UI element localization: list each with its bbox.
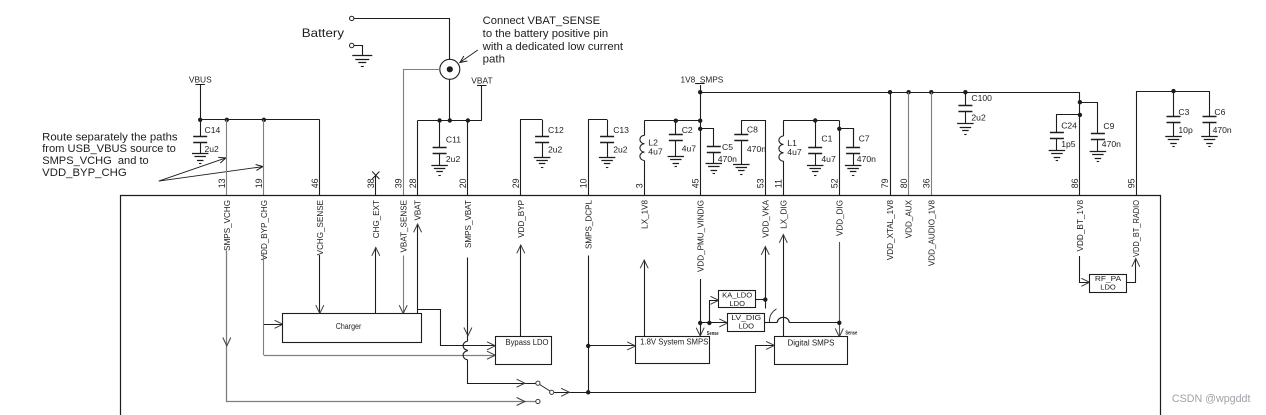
pin 86 number: [1070, 178, 1080, 188]
pin 3 name LX_1V8: [640, 200, 649, 229]
battery positive terminal: [350, 16, 354, 20]
svg-text:SMPS_VCHG and to: SMPS_VCHG and to: [42, 155, 149, 167]
net label VBAT: [471, 75, 492, 85]
svg-text:Sense: Sense: [707, 331, 719, 337]
arrow into Digital SMPS: [766, 341, 774, 349]
svg-text:86: 86: [1070, 178, 1080, 188]
svg-text:C9: C9: [1103, 121, 1114, 131]
pin 20 number: [458, 178, 468, 188]
svg-text:470n: 470n: [1102, 139, 1121, 149]
wire L2 C2 sub-bus: [644, 120, 700, 122]
wire battery+ to junction circle: [354, 19, 450, 60]
pin 52 name VDD_DIG: [835, 200, 844, 236]
wire 1V8 bus drop to L2/C2 sub-bus: [700, 92, 702, 121]
wire SMPS_DCPL to 1.8V SMPS: [588, 342, 635, 350]
svg-text:2u2: 2u2: [446, 154, 461, 164]
wire bus to pin 28: [417, 121, 419, 196]
pin 36 name VDD_AUDIO_1V8: [927, 200, 936, 267]
arrow into LV_DIG: [719, 319, 727, 327]
svg-text:10: 10: [578, 178, 588, 188]
wire tap to C24: [1057, 113, 1083, 132]
capacitor C14: [192, 120, 221, 164]
node SMPS_DCPL branch: [586, 344, 590, 348]
svg-text:C12: C12: [548, 125, 564, 135]
wire tap to C9: [1078, 100, 1098, 134]
node VBUS-C14: [198, 118, 202, 122]
pin 80 number: [899, 178, 909, 188]
svg-text:SMPS_VCHG: SMPS_VCHG: [223, 200, 232, 251]
pin 53 number: [756, 178, 766, 188]
svg-text:VDD_BT_1V8: VDD_BT_1V8: [1076, 200, 1085, 252]
wire KA_LDO output: [756, 297, 768, 301]
pin 95 number: [1126, 178, 1136, 188]
svg-text:LX_1V8: LX_1V8: [640, 200, 649, 229]
wire switch to Digital SMPS: [554, 346, 773, 393]
wire bus to pin 80: [908, 92, 910, 195]
switch blade KA_LDO to VDD_DIG: [770, 309, 777, 323]
wire hop over VBAT branch: [463, 341, 467, 350]
leader arrow to VDD_BYP_CHG pin line: [159, 165, 263, 182]
svg-text:CHG_EXT: CHG_EXT: [372, 200, 381, 238]
svg-text:39: 39: [393, 178, 403, 188]
switch contact circle 1: [536, 381, 540, 385]
wire VDD_BYP_CHG to Bypass LDO: [264, 351, 495, 359]
wire bus to pin 79: [890, 92, 892, 195]
wire bus to pin 13: [226, 120, 228, 196]
annotation note: connect VBAT_SENSE: [482, 15, 623, 65]
svg-text:36: 36: [922, 178, 932, 188]
wire 1V8 bus to pin 86: [1079, 92, 1081, 195]
capacitor C6: [1201, 91, 1232, 146]
battery label: [302, 26, 345, 40]
node SMPS_DCPL joins switch wire: [586, 390, 590, 394]
svg-text:4u7: 4u7: [787, 147, 802, 157]
pin 3 number: [634, 183, 644, 188]
svg-text:470n: 470n: [718, 154, 737, 164]
svg-text:Connect VBAT_SENSE: Connect VBAT_SENSE: [483, 15, 600, 27]
svg-text:Digital SMPS: Digital SMPS: [787, 338, 834, 347]
pin 52 number: [830, 178, 840, 188]
pin 28 name VBAT: [414, 200, 423, 221]
svg-text:LDO: LDO: [1100, 282, 1116, 291]
wire VDD_BYP_CHG internal: [263, 253, 265, 356]
svg-text:C100: C100: [971, 93, 992, 103]
svg-text:VDD_BT_RADIO: VDD_BT_RADIO: [1132, 200, 1141, 257]
capacitor C100: [957, 92, 992, 134]
pin 10 name SMPS_DCPL: [584, 200, 593, 250]
wire pin 53 to C8: [741, 121, 765, 196]
svg-text:C6: C6: [1214, 107, 1225, 117]
node VBUS-pin13: [225, 118, 229, 122]
wire bus to pin 36: [931, 92, 933, 195]
node VDD_PMU branch: [698, 321, 702, 325]
wire bus to pin 20: [467, 121, 469, 196]
wire pin 29 to C12: [521, 120, 543, 196]
wire VBAT branch to Bypass LDO: [418, 310, 496, 350]
wire VDD_BYP_CHG to Charger: [264, 320, 283, 328]
pin 29 name VDD_BYP: [517, 200, 526, 238]
svg-text:Sense: Sense: [845, 331, 857, 337]
svg-text:from USB_VBUS source to: from USB_VBUS source to: [42, 143, 176, 155]
node subbus-C2: [674, 119, 678, 123]
wire bus to pin 19: [263, 120, 265, 196]
pin 28 number: [408, 178, 418, 188]
node busBT-C3: [1171, 89, 1175, 93]
pin 20 name SMPS_VBAT: [464, 200, 473, 248]
svg-text:SMPS_VBAT: SMPS_VBAT: [464, 200, 473, 248]
svg-text:45: 45: [690, 178, 700, 188]
svg-text:19: 19: [254, 178, 264, 188]
capacitor C8: [733, 120, 766, 174]
svg-text:CSDN @wpgddt: CSDN @wpgddt: [1172, 393, 1251, 405]
svg-text:470n: 470n: [1213, 125, 1232, 135]
pin 53 name VDD_VKA: [761, 199, 770, 237]
wire bus to pin 46: [319, 120, 321, 196]
pin 19 number: [254, 178, 264, 188]
pin 79 name VDD_XTAL_1V8: [886, 200, 895, 261]
wire pin 95 to C3 C6 bus: [1137, 92, 1210, 196]
wire SMPS_VBAT to switch: [468, 360, 536, 384]
net label VBUS: [189, 74, 212, 84]
capacitor C11: [431, 121, 461, 176]
svg-text:LDO: LDO: [739, 321, 755, 330]
wire VDD_BT_1V8 internal: [1080, 256, 1090, 286]
block Bypass LDO: [496, 337, 552, 365]
pin 11 name LX_DIG: [779, 200, 788, 229]
svg-text:VDD_DIG: VDD_DIG: [835, 200, 844, 236]
svg-text:Route separately the paths: Route separately the paths: [42, 131, 178, 143]
pin 86 name VDD_BT_1V8: [1076, 200, 1085, 252]
pin 38 no-connect stub: [375, 176, 377, 196]
pin 79 number: [880, 178, 890, 188]
node VBAT-C11: [437, 118, 441, 122]
block LV_DIG LDO: [728, 313, 765, 331]
svg-text:C5: C5: [722, 142, 733, 152]
svg-text:C14: C14: [205, 125, 221, 135]
wire battery- to ground: [354, 46, 363, 56]
wire hop over VDD_BYP_CHG line: [463, 351, 467, 360]
pin 38 name CHG_EXT: [372, 200, 381, 238]
wire SMPS_DCPL internal: [588, 256, 590, 393]
wire VBUS bus: [200, 119, 320, 121]
wire LX_DIG internal: [779, 235, 787, 337]
capacitor C9: [1090, 121, 1121, 162]
arrow mid wire: [561, 388, 569, 396]
svg-text:C8: C8: [747, 125, 758, 135]
wire LV_DIG output to VDD_DIG: [765, 317, 839, 322]
block RF_PA LDO: [1090, 274, 1127, 292]
node VBAT-pin20: [466, 118, 470, 122]
no-connect X on pin 38: [372, 172, 379, 180]
svg-text:2u2: 2u2: [205, 144, 220, 154]
arrow on SMPS_VCHG: [223, 338, 231, 346]
svg-text:with a dedicated low current: with a dedicated low current: [482, 41, 623, 53]
svg-text:VBAT_SENSE: VBAT_SENSE: [399, 199, 408, 252]
ground battery: [352, 56, 372, 67]
svg-text:VDD_BYP: VDD_BYP: [517, 200, 526, 238]
svg-text:4u7: 4u7: [648, 146, 663, 156]
capacitor C7: [845, 129, 876, 176]
pin 10 number: [578, 178, 588, 188]
leader arrow to SMPS_VCHG pin line: [159, 157, 226, 181]
node VDD_DIG junction: [837, 321, 841, 325]
svg-text:2u2: 2u2: [548, 145, 563, 155]
wire between hops: [467, 349, 469, 352]
wire VBAT bus: [418, 120, 482, 122]
pin 19 name VDD_BYP_CHG: [260, 200, 269, 260]
wire VDD_VKA internal: [761, 247, 769, 309]
svg-text:C24: C24: [1061, 120, 1077, 130]
arrow into KA_LDO: [710, 296, 718, 304]
pin 46 number: [310, 178, 320, 188]
svg-text:C11: C11: [446, 134, 461, 144]
capacitor C3: [1165, 91, 1193, 146]
wire branch to LDOs: [700, 301, 727, 326]
pin 45 name VDD_PMU_VINDIG: [696, 200, 705, 272]
svg-text:38: 38: [366, 178, 376, 188]
pin 95 name VDD_BT_RADIO: [1132, 200, 1141, 257]
svg-text:28: 28: [408, 178, 418, 188]
wire VBAT label to bus: [481, 85, 483, 120]
switch blade: [540, 385, 550, 391]
wire VDD_BT_RADIO internal: [1127, 259, 1140, 283]
svg-text:VDD_AUDIO_1V8: VDD_AUDIO_1V8: [927, 200, 936, 267]
node 1V8-pin79: [888, 90, 892, 94]
node subbus-pin45: [698, 119, 702, 123]
wire VDD_BYP internal: [517, 245, 525, 336]
svg-text:4u7: 4u7: [682, 143, 697, 153]
battery negative terminal: [350, 43, 354, 47]
sense label 1.8V SMPS: [707, 331, 719, 337]
svg-text:2u2: 2u2: [971, 113, 986, 123]
svg-text:1V8_SMPS: 1V8_SMPS: [681, 74, 724, 84]
svg-text:3: 3: [634, 183, 644, 188]
svg-text:VDD_XTAL_1V8: VDD_XTAL_1V8: [886, 200, 895, 261]
wire SMPS_VCHG internal: [227, 251, 536, 402]
wire VBAT internal: [414, 224, 422, 314]
wire VCHG_SENSE internal: [316, 255, 324, 314]
pin 11 number: [774, 179, 784, 188]
capacitor C13: [599, 120, 629, 168]
pin 46 name VCHG_SENSE: [316, 199, 325, 255]
block 1.8V System SMPS: [636, 337, 710, 364]
pin 36 number: [922, 178, 932, 188]
wire VDD_DIG internal: [835, 242, 843, 337]
inductor L1: [779, 121, 802, 196]
svg-text:13: 13: [217, 178, 227, 188]
pin 45 number: [690, 178, 700, 188]
svg-text:53: 53: [756, 178, 766, 188]
block KA_LDO: [719, 291, 756, 308]
svg-text:C2: C2: [682, 125, 693, 135]
wire label stub to 1V8 bus: [700, 85, 702, 92]
svg-text:VCHG_SENSE: VCHG_SENSE: [316, 199, 325, 255]
node 1V8-pin80: [906, 90, 910, 94]
node VBAT_SENSE junction circle: [440, 59, 460, 79]
svg-text:VBAT: VBAT: [471, 75, 492, 85]
inductor L2: [640, 121, 663, 196]
svg-text:Battery: Battery: [302, 26, 345, 40]
svg-text:20: 20: [458, 178, 468, 188]
block Charger: [283, 314, 422, 343]
svg-text:VDD_BYP_CHG: VDD_BYP_CHG: [260, 200, 269, 260]
svg-text:SMPS_DCPL: SMPS_DCPL: [584, 200, 593, 250]
node 1V8-C100: [963, 90, 967, 94]
svg-text:80: 80: [899, 178, 909, 188]
svg-text:470n: 470n: [747, 144, 766, 154]
wire VDD_PMU_VINDIG internal: [696, 279, 704, 336]
watermark: [1172, 393, 1251, 405]
svg-text:VDD_AUX: VDD_AUX: [905, 199, 914, 238]
svg-text:95: 95: [1126, 178, 1136, 188]
capacitor C1: [807, 121, 836, 176]
node 1V8-pin36: [929, 90, 933, 94]
pin 13 number: [217, 178, 227, 188]
svg-text:52: 52: [830, 178, 840, 188]
wire VBAT_SENSE internal: [399, 256, 407, 314]
svg-text:C13: C13: [613, 125, 629, 135]
svg-text:2u2: 2u2: [613, 145, 628, 155]
svg-text:C3: C3: [1178, 107, 1189, 117]
wire L1 C1 sub-bus: [783, 120, 839, 122]
sense label Digital SMPS: [845, 331, 857, 337]
wire junction circle to VBAT_SENSE pin 39: [404, 70, 440, 196]
wire SMPS_VBAT internal upper: [467, 258, 469, 342]
node 1V8-pin45: [698, 90, 702, 94]
svg-text:VDD_BYP_CHG: VDD_BYP_CHG: [42, 167, 127, 179]
svg-text:VDD_PMU_VINDIG: VDD_PMU_VINDIG: [696, 200, 705, 272]
wire pin 52 to sub-bus: [839, 121, 841, 196]
svg-text:470n: 470n: [857, 154, 876, 164]
annotation note: route separately: [42, 131, 178, 179]
wire 1V8_SMPS bus: [700, 92, 1080, 94]
svg-text:Bypass LDO: Bypass LDO: [506, 338, 549, 347]
pin 38 number: [366, 178, 376, 188]
leader arrow to VBAT_SENSE junction circle: [460, 50, 478, 63]
svg-text:11: 11: [774, 179, 784, 188]
capacitor C5: [706, 142, 738, 174]
node VBUS-pin19: [262, 118, 266, 122]
wire junction circle to VBAT bus: [448, 79, 452, 122]
capacitor C12: [534, 120, 564, 168]
svg-text:29: 29: [511, 178, 521, 188]
switch contact circle 2: [550, 390, 554, 394]
wire pin 10 to C13: [589, 120, 608, 196]
arrow into bottom switch contact: [517, 398, 525, 406]
svg-text:VDD_VKA: VDD_VKA: [761, 199, 770, 237]
svg-text:79: 79: [880, 178, 890, 188]
svg-text:path: path: [483, 54, 505, 66]
svg-text:VBUS: VBUS: [189, 74, 212, 84]
node subbus2-C1: [813, 118, 817, 122]
wire sub-bus to pin 45: [700, 121, 702, 196]
wire VBUS label to bus: [200, 84, 202, 119]
arrow on SMPS_VBAT: [464, 328, 472, 336]
svg-text:10p: 10p: [1178, 125, 1193, 135]
svg-text:LX_DIG: LX_DIG: [779, 200, 788, 229]
svg-text:to the battery positive pin: to the battery positive pin: [483, 28, 609, 40]
svg-text:46: 46: [310, 178, 320, 188]
svg-text:VBAT: VBAT: [414, 200, 423, 221]
svg-text:1.8V System SMPS: 1.8V System SMPS: [640, 338, 708, 347]
wire LX_1V8 internal: [640, 260, 648, 336]
block Digital SMPS: [775, 337, 848, 365]
capacitor C24: [1049, 120, 1078, 160]
pin 80 name VDD_AUX: [905, 199, 914, 238]
wire pin52 tap to C7: [837, 127, 853, 148]
arrow into switch contact: [517, 379, 525, 387]
svg-text:1p5: 1p5: [1061, 139, 1076, 149]
svg-text:Charger: Charger: [336, 322, 362, 331]
IC boundary: [121, 196, 1161, 415]
net label 1V8_SMPS: [681, 74, 724, 84]
capacitor C2: [668, 121, 697, 167]
svg-text:C1: C1: [821, 134, 832, 144]
pin 29 number: [511, 178, 521, 188]
wire pin45 tap to C5: [698, 127, 714, 146]
pin 39 number: [393, 178, 403, 188]
switch contact circle bottom: [536, 399, 540, 403]
wire CHG_EXT internal: [372, 248, 380, 314]
svg-text:C7: C7: [859, 134, 870, 144]
svg-text:4u7: 4u7: [821, 154, 836, 164]
svg-text:LDO: LDO: [729, 299, 745, 308]
pin 39 name VBAT_SENSE: [399, 199, 408, 252]
pin 13 name SMPS_VCHG: [223, 200, 232, 251]
